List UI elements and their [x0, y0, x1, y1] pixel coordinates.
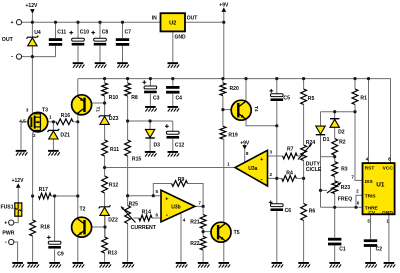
ground U1 [384, 262, 396, 268]
junction [126, 194, 129, 197]
junction [31, 194, 34, 197]
wire +9V down to rail [223, 22, 225, 78]
ground PWR minus [12, 262, 24, 268]
svg-text:R5: R5 [308, 96, 315, 102]
capacitor C7 [116, 38, 129, 46]
wire pin5 line [128, 195, 161, 197]
capacitor C3 [142, 80, 156, 93]
capacitor C4 [166, 86, 179, 94]
junction [367, 77, 370, 80]
diode D2 [330, 119, 339, 128]
wire R21 top lead [202, 206, 204, 214]
wire THRE line [321, 206, 363, 208]
svg-text:U2: U2 [169, 20, 176, 26]
wire U4 bottom lead [31, 46, 33, 57]
MOSFET T3 [28, 112, 48, 132]
wire T3 pin1 to R16 [48, 121, 57, 123]
svg-text:R1: R1 [360, 96, 367, 102]
svg-text:R17: R17 [39, 187, 49, 193]
svg-text:R13: R13 [108, 251, 118, 257]
junction [202, 205, 205, 208]
svg-text:T3: T3 [42, 108, 48, 114]
svg-text:4: 4 [366, 156, 369, 161]
resistor R19 [220, 126, 226, 139]
wire R25 to ground [127, 224, 129, 262]
svg-text:2: 2 [356, 189, 359, 194]
junction [275, 77, 278, 80]
wire R10 to DZ3 [104, 96, 106, 116]
ground U3b pin4 [176, 262, 188, 268]
svg-text:R6: R6 [309, 208, 316, 214]
resistor R18 [30, 220, 36, 236]
resistor R11 [102, 140, 108, 156]
wire R23 wiper [321, 189, 328, 191]
wire R20 top lead [222, 79, 224, 83]
wire R16 to T1 collector line [73, 121, 78, 123]
junction [302, 77, 305, 80]
svg-text:C10: C10 [80, 30, 90, 36]
junction [103, 101, 106, 104]
svg-text:2: 2 [33, 133, 36, 138]
wire C5 bottom [276, 101, 278, 126]
svg-text:R22: R22 [190, 241, 200, 247]
svg-text:C6: C6 [285, 208, 292, 214]
svg-text:5: 5 [156, 189, 159, 194]
IC U1 [363, 163, 395, 214]
ground R13 [99, 262, 111, 268]
resistor R6 [301, 204, 307, 221]
diode D1 [316, 126, 325, 135]
wire R2 to R3 [334, 155, 336, 161]
wire R19 to T5 collector [222, 139, 225, 222]
wire R1 bottom [354, 105, 356, 112]
junction [333, 110, 336, 113]
resistor R21 [200, 215, 206, 229]
wire node to R6 [303, 178, 305, 203]
svg-text:R12: R12 [109, 183, 119, 189]
wire C2 to ground [370, 247, 372, 262]
svg-text:T1: T1 [95, 107, 101, 113]
svg-text:C4: C4 [176, 95, 183, 101]
wire T1 emitter lead [77, 79, 79, 96]
junction [103, 225, 106, 228]
svg-text:-: - [261, 176, 263, 183]
wire C11 top lead [55, 22, 57, 38]
junction [52, 120, 55, 123]
wire T2 emitter to ground [77, 238, 79, 262]
wire fuse to plus terminal [14, 216, 18, 222]
svg-text:1: 1 [386, 218, 389, 223]
svg-text:C3: C3 [153, 95, 160, 101]
ground C10 [73, 62, 85, 68]
supply +12V arrow pwr [16, 183, 21, 188]
ground C1 [329, 262, 341, 268]
junction [244, 77, 247, 80]
wire T4 emitter [246, 120, 277, 126]
wire T3 gate to ground [21, 122, 28, 150]
svg-text:6: 6 [357, 201, 360, 206]
resistor R5 [301, 89, 307, 105]
wire C1 top lead [334, 207, 336, 237]
junction [275, 177, 278, 180]
junction [121, 21, 124, 24]
svg-text:C9: C9 [57, 251, 64, 257]
svg-text:GND: GND [175, 35, 187, 41]
wire down to pin2 node [276, 126, 278, 179]
wire DZ3 to R11 [104, 124, 106, 140]
ground C8 [95, 62, 107, 68]
wire R12 to DZ2 [104, 193, 106, 207]
regulator U2 [161, 13, 186, 31]
wire +9V stub [223, 12, 225, 22]
resistor R14 [139, 215, 152, 221]
svg-text:6: 6 [156, 212, 159, 217]
wire T5 emitter to ground [223, 242, 225, 262]
svg-text:R14: R14 [142, 210, 152, 216]
svg-text:FREQ: FREQ [338, 197, 352, 203]
wire R21 bottom [202, 229, 204, 232]
resistor R9 [172, 181, 188, 187]
potentiometer R23 wiper [327, 183, 341, 194]
wire C12 to ground [172, 139, 174, 151]
wire U3a output long [105, 167, 235, 169]
wire C8 top lead [99, 22, 101, 38]
wire U1 pin4 [368, 79, 370, 164]
wire U1 CV to C2 [370, 214, 372, 239]
wire PWR minus to ground [14, 242, 18, 262]
junction [221, 108, 224, 111]
ground C2 [365, 262, 377, 268]
junction [275, 124, 278, 127]
svg-text:TRIS: TRIS [365, 194, 377, 200]
wire D1 top lead [320, 112, 322, 126]
svg-text:D1: D1 [323, 137, 330, 143]
svg-text:+: + [10, 20, 13, 26]
svg-text:R18: R18 [40, 224, 50, 230]
svg-text:FUS1: FUS1 [1, 205, 14, 211]
svg-text:R9: R9 [178, 177, 185, 183]
ground DZ1 [48, 150, 60, 156]
svg-text:CICLE: CICLE [306, 167, 322, 173]
junction [319, 189, 322, 192]
svg-text:U1: U1 [376, 181, 385, 188]
svg-text:+12V: +12V [12, 178, 24, 184]
potentiometer R23 [332, 181, 338, 194]
wire C9 to ground [54, 249, 56, 261]
supply +9V arrow U3a [242, 145, 247, 150]
resistor R4 [282, 176, 297, 182]
wire U3b output [195, 205, 203, 207]
ground R18 [27, 262, 39, 268]
resistor R10 [102, 83, 108, 96]
capacitor C10 [69, 31, 84, 46]
wire R8 top lead [127, 79, 129, 83]
resistor R17 [39, 193, 52, 199]
wire R22 to ground [202, 250, 204, 262]
junction [353, 110, 356, 113]
ground U2 [168, 62, 180, 68]
ground C4 [168, 106, 180, 112]
svg-text:DZ1: DZ1 [60, 132, 70, 138]
wire R14 to pin6 [152, 217, 161, 219]
svg-text:+9V: +9V [240, 141, 250, 147]
svg-text:T2: T2 [80, 207, 86, 213]
svg-text:CV: CV [368, 210, 375, 216]
ground R22 [198, 262, 210, 268]
wire R23 to THRE line [334, 194, 336, 208]
wire U1 gnd pin [388, 214, 390, 261]
transistor T1 [72, 95, 92, 115]
potentiometer R24 wiper [298, 144, 312, 160]
zener diode DZ1 [48, 129, 60, 139]
wire +12V stub [31, 14, 33, 23]
ground R6 [298, 262, 310, 268]
op-amp U3a [235, 150, 268, 186]
svg-text:-: - [11, 55, 13, 61]
svg-text:R25: R25 [129, 202, 139, 208]
wire T4 base [223, 109, 232, 111]
terminal PWR plus [9, 220, 14, 225]
junction [103, 166, 106, 169]
wire R7 to R24 [297, 155, 303, 157]
wire R22 top lead [202, 232, 204, 237]
wire 9V rail [78, 79, 391, 164]
resistor R1 [352, 89, 358, 105]
resistor R13 [102, 237, 108, 253]
wire D2 to R2 [334, 127, 336, 138]
wire C3 top lead [149, 79, 151, 86]
wire C11 to minus terminal [22, 46, 56, 57]
wire C7 to ground [122, 46, 124, 62]
svg-text:T5: T5 [234, 230, 240, 236]
wire T5 base [203, 231, 212, 233]
terminal OUT minus [16, 54, 21, 59]
svg-text:U4: U4 [34, 30, 41, 36]
svg-text:7: 7 [198, 201, 201, 206]
junction [302, 177, 305, 180]
svg-text:DIS: DIS [365, 179, 374, 185]
potentiometer R25 [125, 206, 131, 224]
wire T3 drain [31, 57, 33, 114]
svg-text:C1: C1 [339, 247, 346, 253]
svg-text:R21: R21 [190, 220, 200, 226]
svg-text:+12V: +12V [26, 3, 38, 9]
wire U3b pin4 to ground [180, 213, 182, 262]
wire T3 source down [32, 131, 35, 196]
junction [149, 119, 152, 122]
svg-text:1: 1 [49, 115, 52, 120]
junction [76, 21, 79, 24]
svg-text:3: 3 [270, 150, 273, 155]
wire T4 collector [245, 79, 247, 101]
supply +9V arrow top [222, 7, 227, 11]
junction [333, 206, 336, 209]
svg-text:C2: C2 [376, 246, 383, 252]
wire U3a pin8 stub [244, 150, 246, 163]
capacitor C9 [47, 236, 61, 249]
wire C1 to ground [334, 245, 336, 262]
capacitor C12 [165, 124, 179, 138]
terminal PWR minus [9, 239, 14, 244]
svg-text:2: 2 [270, 172, 273, 177]
wire R3 to R23 [334, 176, 336, 181]
wire R20 to R19 [222, 96, 224, 127]
wire C5 top lead [276, 79, 278, 94]
svg-text:C7: C7 [125, 30, 132, 36]
resistor R15 [125, 140, 131, 156]
svg-text:+9V: +9V [219, 3, 229, 9]
wire C12 top lead [172, 121, 174, 131]
capacitor C11 [49, 38, 62, 46]
wire DZ1 to ground [52, 139, 54, 150]
capacitor C8 [91, 31, 106, 46]
svg-text:R3: R3 [341, 167, 348, 173]
junction [353, 77, 356, 80]
ground T5 [219, 262, 231, 268]
wire DZ2 to R13 [104, 215, 106, 237]
wire R11 to R12 [104, 156, 106, 176]
svg-text:U3a: U3a [248, 166, 257, 172]
wire C4 to ground [172, 94, 174, 106]
zener diode DZ2 [99, 205, 111, 215]
wire U2 gnd lead [172, 31, 174, 62]
op-amp U3b [161, 190, 195, 222]
wire to C6 [276, 178, 278, 203]
svg-text:1: 1 [227, 161, 230, 166]
wire R1 top lead [354, 79, 356, 89]
junction [126, 77, 129, 80]
zener diode U4 [27, 36, 39, 46]
svg-text:D3: D3 [154, 142, 161, 148]
svg-text:-: - [166, 212, 168, 219]
supply +12V arrow top [30, 9, 35, 14]
wire U4 top lead [31, 22, 33, 37]
wire R18 to ground [32, 236, 34, 262]
svg-text:8: 8 [246, 151, 249, 156]
wire R13 to ground [104, 253, 106, 262]
junction [202, 230, 205, 233]
wire D1 D2 top line [321, 111, 356, 113]
resistor R22 [200, 236, 206, 250]
zener diode DZ3 [99, 114, 111, 124]
svg-text:3: 3 [26, 108, 29, 113]
resistor R20 [220, 83, 226, 96]
wire R9 right leg [188, 184, 204, 207]
wire R25 wiper to R14 [134, 217, 139, 219]
junction [31, 55, 34, 58]
transistor T4 [231, 100, 251, 120]
wire C7 top lead [122, 22, 124, 38]
svg-text:R16: R16 [61, 113, 71, 119]
wire R8 to R15 [127, 96, 129, 140]
wire T2 base [90, 226, 105, 228]
wire to D3 C12 [128, 120, 173, 122]
wire D3 to ground [149, 139, 151, 151]
wire pin3 to R7 [268, 155, 283, 157]
ground C12 [168, 151, 180, 157]
svg-text:R23: R23 [341, 185, 351, 191]
svg-text:CURRENT: CURRENT [131, 225, 157, 231]
svg-text:OUT: OUT [187, 15, 198, 21]
svg-text:OUT: OUT [2, 37, 14, 43]
svg-text:R4: R4 [286, 170, 293, 176]
svg-text:GND: GND [382, 210, 393, 216]
svg-text:PWR: PWR [2, 231, 14, 237]
svg-text:IN: IN [152, 15, 157, 21]
svg-text:R2: R2 [339, 140, 346, 146]
capacitor C6 [269, 201, 283, 212]
fuse FUS1 [15, 203, 22, 216]
svg-text:R20: R20 [230, 86, 240, 92]
ground C9 [49, 262, 61, 268]
wire wiper down [320, 190, 322, 207]
wire D3 top lead [149, 121, 151, 129]
wire pin2 to R4 [268, 177, 282, 179]
ground C3 [145, 106, 157, 112]
junction [149, 77, 152, 80]
wire U2 out [185, 21, 224, 23]
svg-text:R10: R10 [109, 95, 119, 101]
svg-text:5: 5 [367, 218, 370, 223]
svg-text:7: 7 [351, 174, 354, 179]
junction [76, 120, 79, 123]
junction [354, 206, 357, 209]
svg-text:C5: C5 [283, 95, 290, 101]
wire TRIS jog [356, 195, 363, 207]
junction [76, 194, 79, 197]
svg-text:R8: R8 [131, 95, 138, 101]
junction [222, 21, 225, 24]
terminal OUT plus [16, 20, 21, 25]
wire C9 top lead [54, 196, 56, 241]
junction [126, 119, 129, 122]
wire D1 cathode down [320, 135, 322, 191]
svg-text:C11: C11 [57, 30, 66, 36]
junction [98, 21, 101, 24]
svg-text:R15: R15 [132, 156, 142, 162]
svg-text:RST: RST [365, 166, 375, 172]
wire top rail [22, 21, 161, 23]
wire R17 to T2 line [51, 195, 78, 197]
svg-text:VCC: VCC [383, 166, 394, 172]
ground C6 [272, 262, 284, 268]
wire R6 to ground [303, 221, 305, 262]
svg-text:D2: D2 [338, 130, 345, 136]
wire to R18 [32, 196, 34, 220]
ground C7 [117, 62, 129, 68]
ground T2 [73, 262, 85, 268]
wire +12V to fuse [17, 188, 19, 203]
capacitor C2 [364, 239, 377, 247]
wire C4 top lead [172, 79, 174, 86]
wire DZ2-R13 node [104, 215, 106, 237]
svg-text:U3b: U3b [171, 204, 180, 210]
wire R9 left leg [153, 184, 171, 196]
resistor R2 [332, 139, 338, 156]
junction [53, 194, 56, 197]
svg-text:-: - [5, 240, 7, 246]
transistor T5 [211, 222, 231, 242]
resistor R8 [125, 83, 131, 96]
capacitor C1 [328, 238, 341, 246]
junction [103, 77, 106, 80]
resistor R16 [56, 119, 73, 125]
diode D3 [145, 129, 154, 138]
wire DZ1 top lead [52, 122, 54, 130]
wire R5 top lead [303, 79, 305, 89]
ground D3 [145, 151, 157, 157]
potentiometer R24 [301, 145, 307, 161]
